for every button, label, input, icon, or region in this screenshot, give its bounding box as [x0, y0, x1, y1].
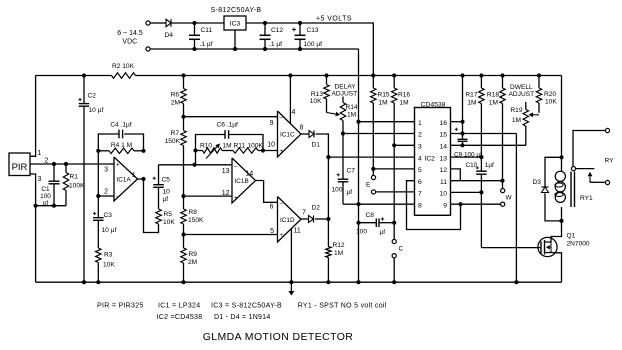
svg-text:C13: C13 [307, 27, 319, 34]
svg-text:C11: C11 [201, 27, 213, 34]
svg-text:ADJUST: ADJUST [332, 91, 358, 98]
svg-text:1M: 1M [512, 117, 521, 124]
svg-text:R9: R9 [189, 251, 198, 258]
svg-text:R19: R19 [510, 107, 522, 114]
svg-text:R13: R13 [311, 91, 323, 98]
svg-text:150K: 150K [165, 138, 181, 145]
svg-text:RY1: RY1 [580, 195, 593, 202]
svg-text:7: 7 [302, 210, 306, 217]
svg-text:R16: R16 [398, 92, 410, 99]
svg-text:D4: D4 [165, 32, 174, 39]
svg-text:C3: C3 [104, 212, 113, 219]
svg-text:µf: µf [380, 229, 386, 236]
svg-text:4: 4 [418, 155, 422, 162]
svg-text:6: 6 [418, 179, 422, 186]
svg-text:9: 9 [443, 202, 447, 209]
svg-text:10: 10 [267, 142, 275, 149]
svg-text:3: 3 [104, 167, 108, 174]
svg-text:6 ~ 14.5: 6 ~ 14.5 [117, 30, 143, 37]
svg-text:100: 100 [332, 187, 343, 194]
svg-text:7: 7 [418, 191, 422, 198]
svg-text:IC2 =CD4538: IC2 =CD4538 [157, 314, 203, 321]
svg-text:R20: R20 [544, 91, 556, 98]
svg-text:IC1A: IC1A [117, 177, 132, 184]
svg-text:2: 2 [45, 158, 49, 165]
svg-text:8: 8 [300, 125, 304, 132]
svg-text:+: + [280, 149, 284, 155]
svg-text:8: 8 [418, 202, 422, 209]
svg-text:100: 100 [356, 229, 367, 236]
svg-text:10 µf: 10 µf [89, 107, 104, 114]
svg-text:100K: 100K [69, 183, 85, 190]
svg-text:C5: C5 [162, 177, 171, 184]
svg-text:2: 2 [104, 189, 108, 196]
svg-text:C2: C2 [88, 93, 97, 100]
svg-text:D1 - D4 = 1N914: D1 - D4 = 1N914 [214, 314, 270, 321]
svg-text:100: 100 [40, 193, 51, 200]
svg-text:10K: 10K [103, 262, 115, 269]
svg-text:C12: C12 [271, 27, 283, 34]
svg-text:1M: 1M [489, 100, 498, 107]
svg-text:1M: 1M [347, 112, 356, 119]
svg-text:PIR: PIR [12, 162, 28, 173]
svg-text:14: 14 [246, 171, 254, 178]
svg-text:R11: R11 [234, 143, 246, 150]
svg-text:11: 11 [440, 179, 447, 186]
svg-text:2: 2 [418, 132, 422, 139]
svg-text:IC2: IC2 [425, 156, 436, 163]
svg-text:10: 10 [439, 191, 447, 198]
svg-text:µf: µf [163, 196, 169, 203]
svg-text:+: + [234, 196, 238, 202]
svg-text:R15: R15 [378, 92, 390, 99]
svg-text:R14: R14 [346, 104, 358, 111]
svg-text:+: + [280, 233, 284, 239]
svg-text:1M: 1M [334, 250, 343, 257]
svg-text:13: 13 [222, 168, 230, 175]
svg-text:150K: 150K [188, 217, 204, 224]
svg-text:S-812C50AY-B: S-812C50AY-B [211, 7, 262, 14]
svg-text:10K: 10K [545, 99, 557, 106]
svg-text:1M: 1M [379, 100, 388, 107]
svg-text:R3: R3 [104, 252, 113, 259]
svg-text:D1: D1 [312, 142, 321, 149]
svg-text:R5: R5 [164, 211, 173, 218]
svg-text:C1: C1 [41, 186, 50, 193]
svg-text:9: 9 [270, 120, 274, 127]
svg-text:IC1B: IC1B [235, 178, 249, 185]
svg-text:R6: R6 [171, 92, 180, 99]
svg-text:C10: C10 [466, 162, 478, 169]
svg-text:Q1: Q1 [567, 233, 576, 240]
svg-text:+5 VOLTS: +5 VOLTS [316, 16, 352, 23]
svg-text:100K: 100K [248, 143, 264, 150]
svg-text:R17: R17 [465, 92, 477, 99]
svg-text:10K: 10K [310, 98, 322, 105]
svg-text:3: 3 [418, 144, 422, 151]
svg-text:W: W [506, 195, 513, 202]
svg-text:12: 12 [222, 190, 230, 197]
svg-text:IC1C: IC1C [280, 132, 295, 139]
svg-text:1M: 1M [467, 100, 476, 107]
svg-text:GLMDA MOTION DETECTOR: GLMDA MOTION DETECTOR [203, 331, 354, 343]
svg-text:RY: RY [605, 158, 615, 165]
svg-text:12: 12 [439, 167, 447, 174]
svg-text:IC1 = LP324: IC1 = LP324 [158, 302, 200, 309]
svg-text:1: 1 [132, 172, 136, 179]
svg-text:1M: 1M [223, 143, 232, 150]
svg-text:C8: C8 [366, 212, 375, 219]
svg-text:.1 µf: .1 µf [200, 41, 213, 48]
svg-text:10: 10 [163, 189, 171, 196]
svg-text:R8: R8 [189, 209, 198, 216]
svg-text:E: E [366, 182, 370, 189]
svg-text:2M: 2M [171, 100, 180, 107]
svg-text:13: 13 [439, 155, 447, 162]
svg-text:14: 14 [439, 144, 447, 151]
svg-text:C6 .1µf: C6 .1µf [217, 122, 239, 129]
svg-text:R12: R12 [333, 242, 345, 249]
svg-text:C7: C7 [347, 168, 356, 175]
svg-text:C: C [399, 246, 404, 253]
svg-text:C4 .1µf: C4 .1µf [110, 122, 132, 129]
svg-text:+: + [116, 163, 120, 169]
svg-text:2N7000: 2N7000 [567, 241, 590, 248]
svg-text:5: 5 [418, 167, 422, 174]
svg-text:IC1D: IC1D [280, 217, 295, 224]
svg-text:PIR = PIR325: PIR = PIR325 [97, 302, 144, 309]
svg-text:CD4538: CD4538 [421, 102, 446, 109]
svg-text:ADJUST: ADJUST [509, 91, 535, 98]
svg-text:1µf: 1µf [485, 162, 494, 169]
svg-text:VDC: VDC [122, 39, 137, 46]
svg-text:DWELL: DWELL [510, 84, 533, 91]
svg-text:D3: D3 [533, 179, 542, 186]
svg-text:6: 6 [270, 204, 274, 211]
svg-text:pf: pf [43, 200, 49, 207]
svg-text:15: 15 [439, 132, 447, 139]
svg-text:R18: R18 [487, 92, 499, 99]
svg-text:1: 1 [418, 120, 422, 127]
svg-text:R7: R7 [171, 130, 180, 137]
svg-text:100 µf: 100 µf [304, 41, 323, 48]
svg-text:R1: R1 [70, 174, 79, 181]
svg-text:R4 1 M: R4 1 M [111, 142, 132, 149]
svg-text:10 µf: 10 µf [102, 227, 117, 234]
svg-text:11: 11 [294, 228, 301, 235]
svg-text:2M: 2M [188, 259, 197, 266]
svg-text:µf: µf [347, 189, 353, 196]
svg-text:3: 3 [38, 176, 42, 183]
svg-text:10K: 10K [163, 219, 175, 226]
svg-text:R2 10K: R2 10K [112, 63, 135, 70]
svg-text:IC3 = S-812C50AY-B: IC3 = S-812C50AY-B [211, 302, 282, 309]
svg-text:D2: D2 [312, 205, 321, 212]
svg-text:.1 µf: .1 µf [269, 41, 282, 48]
svg-text:R10: R10 [200, 143, 212, 150]
svg-text:DELAY: DELAY [335, 84, 357, 91]
svg-text:1M: 1M [400, 100, 409, 107]
svg-text:RY1 - SPST NO 5 volt coil: RY1 - SPST NO 5 volt coil [298, 302, 387, 309]
svg-text:IC3: IC3 [230, 21, 241, 28]
svg-text:4: 4 [292, 109, 296, 116]
svg-text:16: 16 [439, 120, 447, 127]
svg-text:1: 1 [38, 150, 42, 157]
